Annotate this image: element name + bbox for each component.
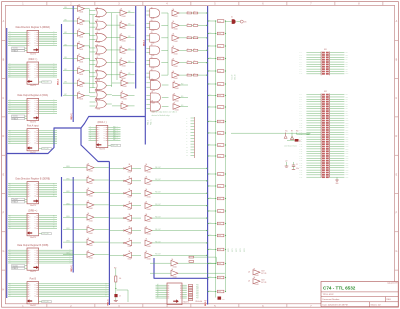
svg-text:PB[0..7]: PB[0..7]: [108, 299, 110, 305]
svg-text:74x541: 74x541: [174, 53, 179, 55]
svg-text:4x10k: 4x10k: [218, 277, 222, 279]
svg-text:74x541: 74x541: [79, 74, 84, 76]
svg-text:Date: 4/25/2019 5:37:48 PM: Date: 4/25/2019 5:37:48 PM: [323, 303, 348, 306]
svg-text:PB16: PB16: [345, 129, 348, 131]
svg-text:Port A input: Port A input: [27, 124, 39, 127]
svg-text:PB3_OUT: PB3_OUT: [155, 204, 161, 206]
svg-text:4x10k: 4x10k: [218, 263, 222, 265]
top resistor pairs column x188-200: [187, 11, 208, 77]
svg-text:74x541: 74x541: [89, 183, 94, 185]
svg-text:DIR3: DIR3: [64, 44, 67, 46]
svg-text:1B: 1B: [97, 89, 99, 91]
svg-text:x9.5: x9.5: [209, 248, 212, 250]
svg-text:74x541: 74x541: [79, 49, 84, 51]
buffers mid-right x176 y82-106: [173, 80, 188, 112]
svg-text:74x541: 74x541: [79, 99, 84, 101]
svg-text:74xx574: 74xx574: [99, 149, 105, 151]
IC (DRB = ): [8, 210, 57, 238]
svg-text:PB30: PB30: [345, 162, 348, 164]
svg-text:DIRB0: DIRB0: [66, 166, 70, 168]
svg-text:PB8: PB8: [345, 111, 348, 113]
buffer pair x256 y272/281: [248, 267, 266, 286]
svg-text:DB5: DB5: [128, 73, 131, 75]
resistor horizontal x190 y261: [189, 261, 194, 263]
svg-text:74xx574: 74xx574: [30, 205, 36, 207]
svg-text:74x541: 74x541: [89, 196, 94, 198]
svg-text:74x32: 74x32: [97, 42, 101, 44]
svg-text:74x541: 74x541: [173, 266, 178, 268]
svg-text:DB4: DB4: [128, 61, 131, 63]
IC (DRA = ): [8, 58, 57, 87]
svg-text:74x541: 74x541: [174, 66, 179, 68]
supply cap cluster y161-172: [285, 161, 299, 171]
svg-text:74x541: 74x541: [89, 171, 94, 173]
bottom buffer column x148.5: [145, 163, 208, 260]
svg-text:x5.5: x5.5: [209, 234, 212, 236]
svg-text:74x541: 74x541: [89, 208, 94, 210]
svg-text:PHI2_RE: PHI2_RE: [42, 233, 48, 235]
svg-text:2B: 2B: [151, 92, 153, 94]
svg-text:x3.5: x3.5: [209, 32, 212, 34]
svg-text:PB13: PB13: [345, 122, 348, 124]
svg-text:74xx574: 74xx574: [30, 54, 36, 56]
svg-text:PB4: PB4: [196, 292, 199, 294]
svg-text:4x10k: 4x10k: [218, 291, 222, 293]
svg-text:PB11: PB11: [345, 118, 348, 120]
svg-text:PB36: PB36: [345, 177, 348, 179]
svg-text:PB2_OUT: PB2_OUT: [155, 192, 161, 194]
svg-text:74xx541: 74xx541: [12, 199, 18, 201]
svg-text:PB6: PB6: [196, 295, 199, 297]
svg-text:74x541: 74x541: [89, 220, 94, 222]
svg-text:Data Direction Register B (DDR: Data Direction Register B (DDRB): [16, 177, 51, 180]
svg-text:RN 4x10k: RN 4x10k: [196, 301, 203, 303]
IC Data Direction Register A (DDRA): [8, 26, 57, 55]
bus vertical x61.5 top: [61, 24, 63, 97]
svg-text:74x541: 74x541: [89, 233, 94, 235]
svg-text:PB7_OUT: PB7_OUT: [155, 254, 161, 256]
svg-text:74x541: 74x541: [174, 41, 179, 43]
svg-text:4x10k: 4x10k: [218, 186, 222, 188]
svg-text:PB29: PB29: [345, 160, 348, 162]
svg-text:x8.5: x8.5: [209, 197, 212, 199]
svg-text:2B: 2B: [151, 20, 153, 22]
NAND gates mid-right x156 y82-106: [146, 79, 168, 113]
svg-text:DIRB2: DIRB2: [66, 191, 70, 193]
svg-text:GND: GND: [222, 299, 225, 301]
top buffer column x175.5: [172, 8, 187, 80]
svg-text:4x10k: 4x10k: [218, 223, 222, 225]
svg-text:p11: p11: [186, 149, 188, 151]
svg-text:DIR4: DIR4: [64, 57, 67, 59]
svg-text:PB2: PB2: [196, 288, 199, 290]
svg-text:DIRB7: DIRB7: [66, 253, 70, 255]
svg-text:PB7: PB7: [345, 108, 348, 110]
svg-text:DIR6: DIR6: [64, 82, 67, 84]
svg-text:R9: R9: [291, 131, 293, 133]
svg-text:Q1: Q1: [299, 141, 301, 143]
svg-text:4x10k: 4x10k: [218, 121, 222, 123]
top AND gate column x155 right of bus: [146, 7, 168, 82]
svg-text:Document Number:: Document Number:: [323, 298, 341, 301]
svg-text:74x541: 74x541: [147, 184, 152, 186]
svg-text:74x32: 74x32: [97, 30, 101, 32]
svg-text:74xx574: 74xx574: [30, 271, 36, 273]
svg-text:74x541: 74x541: [89, 258, 94, 260]
svg-text:+5V: +5V: [285, 161, 287, 163]
svg-text:74x14: 74x14: [128, 184, 132, 186]
svg-text:74x541: 74x541: [122, 65, 127, 67]
svg-text:74x541: 74x541: [147, 196, 152, 198]
svg-text:74x541: 74x541: [79, 37, 84, 39]
svg-text:PB2: PB2: [345, 96, 348, 98]
svg-text:Sheets: 2/2: Sheets: 2/2: [371, 303, 382, 306]
svg-text:74x541: 74x541: [147, 209, 152, 211]
svg-text:74x541: 74x541: [79, 86, 84, 88]
resistor horizontal x190 y257: [189, 256, 194, 258]
svg-text:GND_IO: GND_IO: [235, 74, 237, 80]
svg-text:PHI2_RE: PHI2_RE: [42, 148, 48, 150]
connector SV1 top right: [299, 49, 348, 75]
svg-text:PB32: PB32: [345, 167, 348, 169]
svg-text:DIR2: DIR2: [64, 32, 67, 34]
svg-text:DB[0..7]: DB[0..7]: [71, 113, 73, 119]
connector JP3 single column x194 y117-158: [186, 117, 195, 158]
svg-text:1B: 1B: [97, 7, 99, 9]
wire L bottom: [117, 290, 129, 302]
svg-text:PB3: PB3: [345, 57, 348, 59]
IC Port A input: [8, 124, 57, 153]
svg-text:1B: 1B: [97, 80, 99, 82]
bus L-shape bottom middle: [154, 258, 208, 305]
svg-text:74x07: 74x07: [261, 279, 265, 281]
svg-text:Port B: Port B: [30, 277, 37, 280]
bus vertical x207.6 right: [207, 6, 209, 280]
svg-text:Data Output Register B (ORB): Data Output Register B (ORB): [17, 244, 48, 247]
svg-text:74x541: 74x541: [147, 246, 152, 248]
bus DB[0..7] left vertical: [6, 28, 8, 298]
svg-text:1B: 1B: [97, 99, 99, 101]
svg-text:(ROA = ): (ROA = ): [98, 121, 107, 124]
svg-text:4x10k: 4x10k: [218, 21, 222, 23]
svg-text:NET1: NET1: [232, 248, 234, 252]
svg-text:74x32: 74x32: [97, 17, 101, 19]
svg-text:4x10k: 4x10k: [218, 107, 222, 109]
bus branch down to ROA region: [81, 128, 109, 162]
svg-text:x3.5: x3.5: [209, 262, 212, 264]
svg-text:4k7: 4k7: [193, 48, 195, 50]
svg-text:74xx541: 74xx541: [30, 305, 36, 307]
svg-text:4x10k: 4x10k: [218, 174, 222, 176]
svg-text:74xx574: 74xx574: [30, 122, 36, 124]
svg-text:C3: C3: [119, 296, 121, 298]
svg-text:74x541: 74x541: [147, 172, 152, 174]
svg-text:VCC_IO: VCC_IO: [232, 74, 234, 80]
svg-text:PB10: PB10: [345, 73, 348, 75]
svg-text:R10: R10: [296, 131, 299, 133]
svg-text:PB7: PB7: [196, 297, 199, 299]
svg-text:74xx541: 74xx541: [12, 265, 18, 267]
svg-text:DIR7: DIR7: [64, 94, 67, 96]
svg-text:4x10k: 4x10k: [218, 58, 222, 60]
svg-text:DIRB5: DIRB5: [66, 228, 70, 230]
svg-text:GND: GND: [336, 183, 339, 185]
svg-text:74x541: 74x541: [123, 109, 128, 111]
svg-text:PB5_OUT: PB5_OUT: [155, 229, 161, 231]
svg-text:OUT_PB: OUT_PB: [261, 273, 266, 275]
svg-text:x8.5: x8.5: [209, 57, 212, 59]
svg-text:PB6_OUT: PB6_OUT: [155, 241, 161, 243]
svg-text:C: C: [396, 97, 398, 100]
svg-text:74x541: 74x541: [147, 258, 152, 260]
pull-up resistor network column x215-228: [208, 19, 227, 293]
svg-text:4x10k: 4x10k: [218, 33, 222, 35]
svg-text:D1: D1: [231, 17, 233, 19]
svg-text:PB[0..7]: PB[0..7]: [151, 119, 153, 125]
svg-text:4k7: 4k7: [193, 73, 195, 75]
svg-text:PB20: PB20: [345, 139, 348, 141]
svg-text:DB[0..7]: DB[0..7]: [71, 265, 73, 271]
vertical net labels x228-246 y238-252: [228, 248, 246, 252]
NAND gates mid-left y82-106: [90, 80, 112, 110]
resistor ladder x188.5 vertical: [188, 285, 202, 304]
svg-text:p10: p10: [186, 146, 188, 148]
svg-text:SV1: SV1: [324, 49, 327, 51]
svg-text:74x541: 74x541: [79, 61, 84, 63]
svg-text:74x14: 74x14: [128, 258, 132, 260]
svg-text:C1: C1: [296, 164, 298, 166]
svg-text:74x08: 74x08: [151, 43, 155, 45]
svg-text:DIR1: DIR1: [64, 20, 67, 22]
svg-text:74x07: 74x07: [261, 271, 265, 273]
svg-text:PB8: PB8: [345, 69, 348, 71]
bus vertical x61.5 bottom: [61, 177, 63, 249]
svg-text:2B: 2B: [151, 79, 153, 81]
svg-text:PB3: PB3: [345, 99, 348, 101]
svg-text:DB[0..7]: DB[0..7]: [144, 40, 146, 46]
svg-text:NET0: NET0: [228, 248, 230, 252]
svg-text:Level Down Choice: Level Down Choice: [284, 146, 297, 148]
svg-text:74xx574: 74xx574: [30, 85, 36, 87]
svg-text:PB15: PB15: [345, 127, 348, 129]
svg-text:4x10k: 4x10k: [218, 198, 222, 200]
svg-text:PB22: PB22: [345, 144, 348, 146]
svg-text:74x14: 74x14: [128, 221, 132, 223]
svg-text:4k7: 4k7: [193, 60, 195, 62]
svg-text:74x541: 74x541: [174, 78, 179, 80]
svg-text:74x32: 74x32: [97, 67, 101, 69]
svg-text:PB23: PB23: [345, 146, 348, 148]
svg-text:PB9: PB9: [345, 71, 348, 73]
svg-text:PB14: PB14: [345, 125, 348, 127]
svg-text:LED: LED: [244, 21, 247, 23]
svg-text:74x08: 74x08: [151, 18, 155, 20]
svg-text:4k7: 4k7: [193, 11, 195, 13]
svg-text:74x541: 74x541: [173, 276, 178, 278]
RN chain bottom termination: [216, 292, 225, 302]
svg-text:x3.5: x3.5: [209, 222, 212, 224]
svg-text:PB2: PB2: [345, 54, 348, 56]
svg-text:4x10k: 4x10k: [218, 211, 222, 213]
svg-text:74x541: 74x541: [122, 28, 127, 30]
svg-text:74xx574: 74xx574: [30, 237, 36, 239]
svg-text:DB3: DB3: [128, 48, 131, 50]
svg-text:x5.5: x5.5: [209, 94, 212, 96]
svg-text:74xx574: 74xx574: [183, 302, 189, 304]
svg-text:PHI2_RE: PHI2_RE: [112, 145, 118, 147]
svg-text:x1.5: x1.5: [209, 290, 212, 292]
svg-text:PB1: PB1: [345, 94, 348, 96]
svg-text:74x08: 74x08: [151, 30, 155, 32]
svg-text:PB5: PB5: [196, 294, 199, 296]
diode clamp top right: [226, 17, 247, 24]
svg-text:(DRB = ): (DRB = ): [28, 210, 37, 212]
svg-text:PB3: PB3: [196, 290, 199, 292]
svg-text:74x14: 74x14: [128, 234, 132, 236]
svg-text:74x541: 74x541: [174, 29, 179, 31]
svg-text:74x541: 74x541: [175, 88, 180, 90]
svg-text:74x541: 74x541: [123, 86, 128, 88]
svg-text:74x541: 74x541: [122, 41, 127, 43]
svg-text:PB35: PB35: [345, 174, 348, 176]
svg-text:For PA7 edge detect use CA1 in: For PA7 edge detect use CA1 in: [152, 110, 178, 113]
svg-text:D: D: [3, 135, 5, 138]
svg-text:PB21: PB21: [345, 141, 348, 143]
svg-text:PB4_OUT: PB4_OUT: [155, 216, 161, 218]
svg-text:IRQ: IRQ: [181, 83, 183, 85]
svg-text:PHI2_RE: PHI2_RE: [42, 82, 48, 84]
svg-text:derived of default edge: derived of default edge: [152, 114, 170, 117]
svg-text:PB17: PB17: [345, 132, 348, 134]
svg-text:PB10: PB10: [345, 115, 348, 117]
svg-text:4x10k: 4x10k: [218, 249, 222, 251]
connector SV2 long right: [299, 91, 348, 179]
svg-text:DIR5: DIR5: [64, 69, 67, 71]
svg-text:PB1: PB1: [196, 286, 199, 288]
svg-text:1B: 1B: [97, 57, 99, 59]
svg-text:PB33: PB33: [345, 170, 348, 172]
svg-text:PB34: PB34: [345, 172, 348, 174]
svg-text:74x08: 74x08: [151, 67, 155, 69]
buffers mid y82-106: [112, 78, 135, 111]
svg-text:4x10k: 4x10k: [218, 46, 222, 48]
svg-text:DIRB1: DIRB1: [66, 179, 70, 181]
svg-text:DIRB4: DIRB4: [66, 216, 70, 218]
svg-text:PB1: PB1: [345, 52, 348, 54]
svg-text:Data Direction Register A (DDR: Data Direction Register A (DDRA): [16, 26, 51, 29]
svg-text:x7.5: x7.5: [209, 276, 212, 278]
svg-text:PB9: PB9: [345, 113, 348, 115]
svg-text:IRQ: IRQ: [181, 96, 183, 98]
green labels right of bottom IC: [196, 285, 199, 300]
svg-text:74x14: 74x14: [128, 172, 132, 174]
svg-text:DB[0..7]: DB[0..7]: [205, 300, 207, 306]
svg-text:G: G: [395, 250, 397, 253]
IC Data Output Register A (ORA): [8, 94, 57, 123]
buffer pair x174 y263/273: [150, 258, 190, 278]
svg-text:1B: 1B: [97, 69, 99, 71]
svg-text:4x10k: 4x10k: [218, 133, 222, 135]
top buffer column x123.5: [112, 8, 135, 80]
svg-text:1B: 1B: [97, 45, 99, 47]
svg-text:74x541: 74x541: [175, 101, 180, 103]
svg-text:p12: p12: [186, 152, 188, 154]
svg-text:PB5: PB5: [345, 103, 348, 105]
IC bottom-middle 74xx574: [156, 283, 189, 305]
RC chain bottom x115.8: [114, 268, 122, 302]
svg-text:74xx541: 74xx541: [30, 152, 36, 154]
level shifter cluster: [284, 131, 310, 148]
svg-text:4x10k: 4x10k: [218, 95, 222, 97]
bus vertical x73 bottom: [72, 177, 74, 273]
long wire to SV2: [231, 132, 310, 134]
svg-text:74x14: 74x14: [128, 209, 132, 211]
svg-text:DIRB6: DIRB6: [66, 241, 70, 243]
bus vertical x135.7 top: [135, 6, 137, 89]
svg-text:74x541: 74x541: [79, 24, 84, 26]
svg-text:R12: R12: [114, 268, 117, 270]
bus snake DB to RIA: [7, 117, 146, 154]
svg-text:SV2: SV2: [324, 91, 327, 93]
svg-text:74xx541: 74xx541: [12, 116, 18, 118]
svg-text:74x541: 74x541: [123, 98, 128, 100]
svg-text:74x541: 74x541: [122, 16, 127, 18]
svg-text:4x10k: 4x10k: [218, 156, 222, 158]
svg-text:4x10k: 4x10k: [218, 84, 222, 86]
IC Data Direction Register B (DDRB): [8, 177, 57, 206]
svg-text:74x541: 74x541: [147, 221, 152, 223]
svg-text:74x541: 74x541: [79, 12, 84, 14]
svg-text:p13: p13: [186, 155, 188, 157]
svg-text:PB28: PB28: [345, 158, 348, 160]
svg-text:PB6: PB6: [345, 106, 348, 108]
svg-text:74x08: 74x08: [151, 103, 155, 105]
bus vertical x73 top: [72, 6, 74, 122]
svg-text:NET2: NET2: [236, 248, 238, 252]
svg-text:PB7: PB7: [345, 66, 348, 68]
top-left buffer column x81: [63, 3, 90, 100]
svg-text:G: G: [2, 250, 4, 253]
svg-text:PB12: PB12: [345, 120, 348, 122]
svg-text:74x541: 74x541: [147, 234, 152, 236]
IC Data Output Register B (ORB): [8, 244, 73, 273]
svg-text:PB18: PB18: [345, 134, 348, 136]
svg-text:4x10k: 4x10k: [218, 71, 222, 73]
svg-text:DIR0: DIR0: [64, 7, 67, 9]
top OR gate column x101: [90, 7, 112, 81]
svg-text:PB25: PB25: [345, 151, 348, 153]
svg-text:C74 - TTL 6532: C74 - TTL 6532: [323, 285, 356, 290]
svg-text:(DRA = ): (DRA = ): [28, 58, 37, 61]
svg-text:IRQ: IRQ: [181, 105, 183, 107]
vertical routing wires top matrix: [90, 11, 169, 94]
svg-text:H: H: [3, 288, 5, 291]
svg-text:74x32: 74x32: [97, 54, 101, 56]
svg-text:1B: 1B: [97, 20, 99, 22]
svg-text:NET3: NET3: [240, 248, 242, 252]
svg-text:100n: 100n: [296, 168, 299, 170]
svg-text:74x14: 74x14: [128, 246, 132, 248]
svg-text:PB0: PB0: [196, 285, 199, 287]
svg-text:DB1: DB1: [128, 24, 131, 26]
bus vertical x109.4 bottom half: [108, 162, 110, 306]
svg-text:OUT_PB: OUT_PB: [261, 282, 266, 284]
svg-text:74x14: 74x14: [128, 196, 132, 198]
svg-text:Data Output Register A (ORA): Data Output Register A (ORA): [17, 94, 48, 97]
svg-text:DB[0..7]: DB[0..7]: [58, 79, 60, 85]
svg-text:2B: 2B: [151, 57, 153, 59]
wires from buffer pair to RN column: [190, 257, 225, 273]
